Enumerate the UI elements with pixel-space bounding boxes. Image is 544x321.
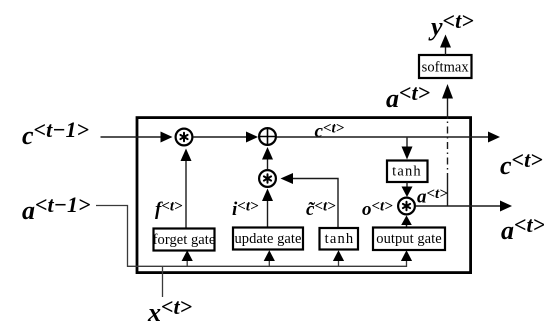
svg-text:forget gate: forget gate [153, 232, 216, 248]
svg-text:softmax: softmax [422, 60, 470, 76]
wire C2 to right edge and out (c line) [277, 136, 489, 138]
wire x<t> connector [162, 266, 164, 297]
wire tanh down to C4 [406, 183, 408, 188]
wire bus up arrow update [268, 261, 270, 267]
multiply node C4 [398, 198, 415, 215]
wire forget gate up to C1 [185, 161, 187, 229]
arrow softmax to y<t> [445, 47, 447, 56]
multiply node C1 [176, 129, 193, 146]
svg-text:a<t>: a<t> [501, 212, 544, 245]
wire bus up arrow forget [186, 261, 188, 267]
forget gate box [154, 229, 215, 251]
wire C3 to C2 [267, 160, 269, 170]
svg-text:tanh: tanh [392, 164, 422, 180]
svg-text:y<t>: y<t> [428, 8, 474, 41]
tanh gate box [320, 228, 359, 250]
wire dash-dot segment inside box [447, 119, 449, 180]
wire C1 to C2 [194, 136, 247, 138]
wire bus up arrow output gate [401, 250, 412, 261]
update gate box [233, 228, 303, 250]
svg-text:a<t>: a<t> [417, 186, 448, 208]
LSTM cell outer box [137, 118, 471, 273]
svg-text:c<t−1>: c<t−1> [22, 117, 89, 150]
arrowhead into softmax [442, 84, 453, 99]
output gate box [373, 228, 445, 251]
wire c line down into tanh box [406, 138, 408, 147]
wire c<t-1> into box [101, 136, 162, 138]
wire solid above box top [447, 98, 449, 120]
svg-text:tanh: tanh [325, 231, 355, 247]
wire tanh(c-tilde) into C3 [293, 179, 338, 229]
svg-text:output gate: output gate [376, 231, 441, 247]
softmax box U-softmax [419, 55, 472, 78]
wire update gate up to C3 [267, 201, 269, 228]
svg-text:a<t>: a<t> [386, 80, 430, 113]
tanh box right U-tanh [387, 161, 428, 183]
svg-text:c̃<t>: c̃<t> [306, 199, 336, 221]
svg-text:a<t−1>: a<t−1> [22, 192, 91, 225]
add node C2 [259, 128, 276, 145]
wire output gate to C4 [406, 225, 408, 228]
wire bus up arrow tanh gate [338, 261, 340, 267]
svg-text:c<t>: c<t> [500, 147, 543, 180]
multiply node C3 [259, 170, 276, 187]
svg-text:update gate: update gate [235, 231, 302, 247]
wire a line out right [416, 205, 501, 207]
wire a<t> up to softmax (solid part below) [447, 180, 449, 206]
svg-text:c<t>: c<t> [315, 121, 345, 143]
svg-text:f<t>: f<t> [155, 199, 183, 221]
svg-text:o<t>: o<t> [362, 199, 393, 221]
svg-text:i<t>: i<t> [232, 199, 259, 221]
wire a<t-1> connector [96, 206, 407, 267]
svg-text:x<t>: x<t> [147, 294, 192, 321]
